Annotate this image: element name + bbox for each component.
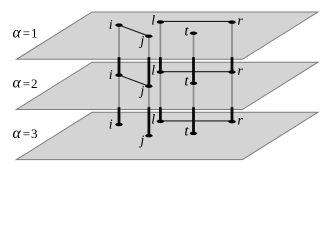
node l plane1 [157, 20, 164, 24]
legs column r [231, 22, 233, 122]
svg-text:r: r [237, 64, 243, 79]
plane alpha=1 [17, 12, 319, 59]
wire l1-l2 upper gray [159, 22, 161, 58]
legs column l [159, 22, 161, 121]
svg-text:l: l [151, 113, 155, 128]
node i plane2 [115, 73, 122, 77]
node i plane1 [115, 23, 122, 27]
node j plane3 [145, 134, 152, 138]
svg-text:2: 2 [31, 76, 38, 91]
node r plane3 [228, 120, 235, 124]
in-plane line l-r plane2 [160, 71, 232, 73]
node t plane2 [190, 81, 197, 85]
svg-text:i: i [109, 118, 113, 133]
svg-text:1: 1 [31, 26, 38, 41]
legs column t [193, 33, 195, 133]
svg-text:l: l [151, 13, 155, 28]
node t plane3 [190, 132, 197, 136]
wire t1-t2 upper gray [193, 33, 195, 58]
node r plane1 [228, 20, 235, 24]
svg-text:r: r [237, 114, 243, 129]
legs column j [148, 36, 150, 135]
in-plane line i-j plane1 [119, 25, 149, 36]
in-plane line i-j plane2 [119, 75, 149, 86]
wire r1-r2 upper gray [231, 22, 233, 58]
svg-text:i: i [109, 68, 113, 83]
wire i1-i2 upper gray [118, 25, 120, 58]
node j plane1 [145, 34, 152, 38]
node t plane1 [190, 31, 197, 35]
node i plane3 [115, 123, 122, 127]
in-plane line l-r plane3 [160, 120, 232, 122]
svg-text:α: α [13, 125, 22, 142]
node l plane3 [157, 120, 164, 124]
plane alpha=3 [17, 112, 319, 159]
svg-text:α: α [13, 24, 22, 41]
svg-text:3: 3 [31, 126, 38, 141]
svg-text:=: = [23, 76, 30, 91]
in-plane line l-r plane1 [160, 20, 232, 22]
node r plane2 [228, 70, 235, 74]
wire j1-j2 upper gray [148, 36, 150, 58]
svg-text:=: = [23, 126, 30, 141]
svg-text:r: r [237, 14, 243, 29]
legs column i [118, 25, 120, 124]
svg-text:i: i [109, 18, 113, 33]
node l plane2 [157, 70, 164, 74]
svg-text:=: = [23, 26, 30, 41]
svg-text:l: l [151, 63, 155, 78]
node j plane2 [145, 84, 152, 88]
svg-text:α: α [13, 75, 22, 92]
plane alpha=2 [17, 62, 319, 109]
